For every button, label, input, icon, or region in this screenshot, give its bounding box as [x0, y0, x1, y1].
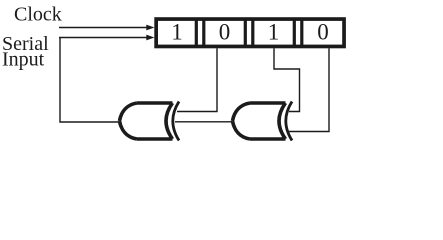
svg-text:0: 0	[219, 20, 231, 45]
xor gate U1 (left-facing)	[120, 102, 180, 141]
divider between cell 1 and cell 2	[196, 19, 204, 47]
wire clock horizontal	[59, 27, 148, 29]
divider between cell 3 and cell 4	[294, 19, 302, 47]
xor gate U2 (left-facing)	[233, 102, 293, 141]
wire xor U2 output to xor U1 bottom input	[175, 121, 232, 123]
svg-text:0: 0	[317, 20, 329, 45]
arrowhead clock into register	[146, 25, 154, 31]
register outer box	[156, 19, 344, 46]
wire serial input horizontal	[59, 37, 148, 39]
wire serial input vertical left side	[60, 38, 119, 123]
svg-text:1: 1	[171, 20, 183, 45]
wire from cell 3 down with jog to xor gate U2 top input	[274, 48, 300, 111]
wire from cell 2 down to xor gate U1 top input	[177, 48, 217, 111]
divider between cell 2 and cell 3	[245, 19, 253, 47]
svg-text:Clock: Clock	[14, 4, 62, 26]
svg-text:Input: Input	[2, 49, 45, 71]
svg-text:1: 1	[268, 20, 280, 45]
arrowhead serial input into register	[146, 35, 154, 41]
wire from cell 4 down to xor gate U2 bottom input	[288, 48, 329, 131]
